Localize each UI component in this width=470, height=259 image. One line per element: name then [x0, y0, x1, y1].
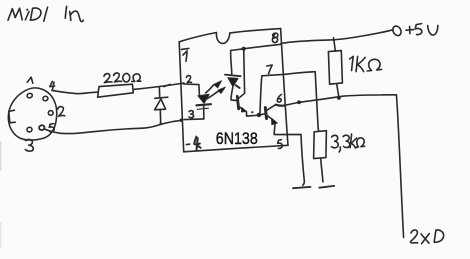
- U1 pin 4 label: [194, 137, 200, 151]
- pin 5 label: [49, 124, 54, 132]
- transistor Q1 base bar: [237, 96, 238, 109]
- U1 pin 3 label: [189, 111, 194, 118]
- U1 pin 4 tick: [186, 143, 189, 145]
- R2 value label 1K: [350, 56, 382, 71]
- U1 internal pin7 wire: [260, 74, 285, 113]
- +5V rail from pin8: [281, 30, 393, 44]
- paper edge smudge: [0, 141, 1, 171]
- ground bar R3: [319, 186, 334, 188]
- resistor R1 body: [98, 84, 134, 97]
- resistor R3 body 3.3k: [314, 131, 327, 159]
- U1 pin 7 label: [267, 65, 273, 74]
- light arrow 2 shaft: [206, 91, 219, 100]
- U1 pin 1 label: [181, 48, 188, 61]
- junction Q2 base: [257, 113, 261, 117]
- Q1 emitter to Q2 base wire: [246, 111, 265, 116]
- R1 value label 220R: [104, 73, 141, 83]
- wire pin4 to R1: [52, 90, 98, 93]
- junction on diode anode: [159, 122, 161, 124]
- Q1 collector stroke: [239, 93, 245, 98]
- U1 pin 8 label: [272, 33, 277, 42]
- U1 pin 6 label: [277, 94, 281, 102]
- U1 bottom edge: [184, 145, 288, 152]
- title MIDI In: [8, 6, 83, 21]
- photodiode triangle: [228, 78, 238, 87]
- U1 pin 5 label: [278, 140, 283, 149]
- wire pin6 to RXD: [285, 95, 404, 238]
- ground bar pin5: [293, 187, 311, 188]
- photodiode cathode bar: [225, 75, 241, 77]
- Q1 collector rail wire: [243, 49, 246, 94]
- pin 5: [39, 125, 45, 131]
- U1 internal pin3 line: [184, 118, 204, 121]
- pin 3: [26, 127, 32, 133]
- light arrow 2 head: [218, 87, 225, 93]
- Q1 emitter stroke: [239, 107, 244, 111]
- Q2 emitter arrowhead: [272, 118, 278, 124]
- R3 value label 3.3k: [331, 134, 364, 152]
- light arrow 1 head: [214, 81, 222, 88]
- pin 2 label: [58, 107, 65, 117]
- junction tick 1k top: [332, 38, 335, 41]
- wire R1 to U1 pin2: [133, 83, 184, 89]
- svg-text:6N138: 6N138: [216, 129, 258, 148]
- wire Q2 emitter to pin5 ground: [274, 125, 304, 186]
- resistor R2 top lead: [334, 41, 335, 51]
- wire pin7 to R3: [285, 72, 319, 132]
- connector key notch: [9, 110, 15, 123]
- wire overlap tick: [164, 84, 170, 86]
- photodiode anode lead to Q1 base: [231, 87, 237, 101]
- connector J1 DIN-5 socket outline: [8, 88, 56, 140]
- U1 right edge: [281, 29, 288, 146]
- pin 3 label: [25, 139, 33, 151]
- diode D1 triangle: [155, 99, 166, 110]
- pin 4: [42, 96, 48, 102]
- R2 bottom lead: [337, 84, 339, 98]
- light arrow 1 shaft: [206, 85, 214, 93]
- +5V terminal circle: [391, 25, 402, 37]
- LED cathode bar: [196, 104, 211, 105]
- Q2 collector to pin6: [276, 105, 285, 106]
- blob on pin6 wire: [297, 100, 301, 104]
- diode D1 cathode lead: [158, 88, 160, 98]
- wire pin5 to U1 pin3: [44, 120, 181, 133]
- U1 pin 2 label: [186, 76, 191, 83]
- Q2 collector stroke: [267, 105, 276, 111]
- pin 4 label: [50, 81, 55, 89]
- U1 internal pin2 lead to LED: [183, 84, 199, 95]
- U1 top edge with notch: [179, 33, 216, 42]
- junction at U1 pin3: [180, 119, 183, 122]
- LED lead to pin3 line: [203, 106, 205, 119]
- pin 1: [27, 93, 33, 99]
- photodiode lead from rail: [231, 51, 232, 75]
- junction R2 on RXD wire: [337, 96, 341, 100]
- stray dot: [251, 111, 253, 113]
- LED extra tick: [197, 108, 208, 109]
- Q2 emitter stroke: [267, 116, 273, 120]
- pin 1 label: [27, 77, 33, 83]
- junction on rail: [242, 47, 246, 51]
- U1 internal Vcc rail from pin8: [231, 44, 281, 50]
- +5V label: [406, 24, 438, 35]
- transistor Q2 base bar: [265, 108, 266, 119]
- R3 bottom lead: [321, 159, 323, 182]
- LED triangle: [198, 94, 209, 103]
- optocoupler U1 left edge: [179, 42, 184, 152]
- pin 2: [48, 110, 54, 116]
- diode D1 cathode bar: [155, 97, 168, 98]
- resistor R2 body 1k: [328, 51, 342, 85]
- diode D1 anode lead: [159, 110, 161, 124]
- RXD label: [411, 230, 444, 244]
- photodiode smudge: [236, 85, 240, 88]
- Q1 emitter arrowhead: [242, 108, 247, 112]
